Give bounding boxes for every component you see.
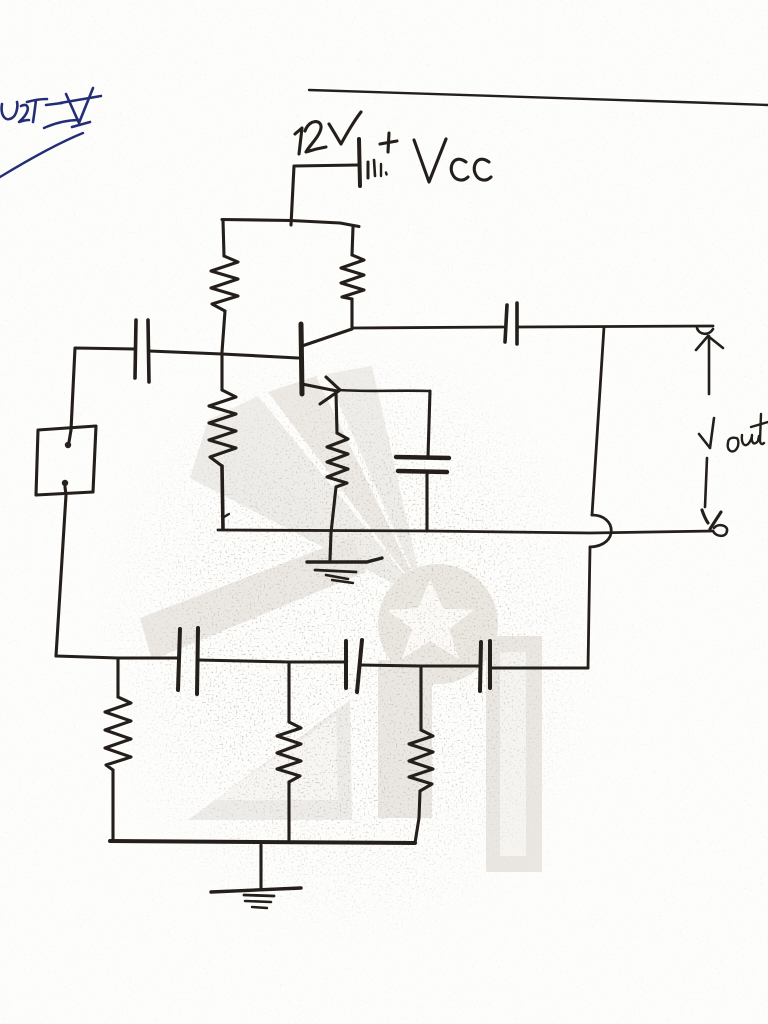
capacitor Cout left plate <box>505 305 507 342</box>
wire collector to output cap <box>352 327 503 328</box>
input source bottom terminal dot <box>62 480 68 486</box>
transistor Q1 base bar <box>301 324 302 394</box>
capacitor C3 left plate <box>480 642 481 691</box>
handwritten title letter I/2 <box>19 105 29 122</box>
transistor Q1 emitter arrowhead <box>320 377 340 404</box>
wire input box down to feedback rail <box>56 487 66 656</box>
watermark star <box>387 580 474 659</box>
label + Vcc <box>380 141 397 144</box>
wire emitter to CE <box>340 390 430 391</box>
resistor Rf3 zigzag <box>409 730 433 791</box>
ground (emitter) stem <box>330 533 331 560</box>
wire Vcc to rail <box>291 165 358 225</box>
resistor Rf2: top lead <box>287 663 290 722</box>
capacitor C3 right plate <box>488 641 492 688</box>
resistor R2 collector load: top lead <box>352 227 353 255</box>
handwritten title letter T <box>27 99 47 122</box>
resistor RE emitter: top lead <box>336 392 337 433</box>
ground (feedback) bars <box>211 888 301 892</box>
page crease line top <box>309 90 768 105</box>
resistor Rf2 bottom lead <box>287 782 290 840</box>
ground (feedback) stem <box>259 845 262 888</box>
battery B1 (Vcc supply) <box>359 139 360 186</box>
resistor RE zigzag <box>327 433 348 487</box>
watermark ray fan <box>190 420 425 600</box>
resistor R2 zigzag <box>341 255 364 299</box>
transistor Q1 emitter <box>302 384 337 391</box>
resistor R1 upper bias: top lead <box>223 220 224 256</box>
resistor Rf3 bottom lead <box>415 791 420 843</box>
input source top terminal dot <box>65 442 71 448</box>
resistor R3 zigzag <box>209 390 236 466</box>
input source box <box>36 426 96 495</box>
wire Cin left to input <box>71 348 135 430</box>
wire Cin right to base node <box>149 351 298 358</box>
resistor RE bottom lead <box>331 487 336 533</box>
resistor R3 bottom lead <box>222 466 223 529</box>
resistor Rf3: top lead <box>419 666 422 730</box>
capacitor CE top lead <box>428 391 430 457</box>
handwritten title letter U <box>2 102 18 119</box>
capacitor CE bottom lead <box>425 472 428 531</box>
watermark circle <box>378 564 498 684</box>
watermark triangle <box>188 700 352 820</box>
output terminal top hook <box>697 328 713 334</box>
wire hop over ground bus <box>590 515 611 547</box>
resistor Rf1: top lead <box>116 658 119 697</box>
capacitor C2 left plate <box>344 641 348 688</box>
wire Cout to output terminal <box>519 326 713 327</box>
ground rail <box>110 841 415 843</box>
capacitor Cout right plate <box>515 303 519 344</box>
capacitor C1 left plate <box>178 629 180 690</box>
resistor R3 lower bias: top lead <box>220 355 223 390</box>
transistor Q1 collector <box>302 329 352 346</box>
capacitor Cin plates <box>135 320 136 378</box>
output terminal bottom loop <box>713 525 727 536</box>
handwritten title numeral V <box>60 88 101 127</box>
feedback network wire <box>56 656 588 668</box>
watermark bar left <box>378 660 432 818</box>
resistor R1 bottom lead <box>222 311 225 352</box>
blue underline short <box>44 120 80 128</box>
ground bus wire y530 <box>218 530 713 533</box>
resistor R2 bottom lead <box>350 299 353 328</box>
stray tick near R3 <box>224 514 229 517</box>
capacitor C1 right plate <box>197 628 198 694</box>
capacitor CE bottom plate <box>398 471 447 472</box>
top supply rail <box>222 220 359 227</box>
wire output right vertical (bottom segment) <box>588 547 590 668</box>
label 12V <box>295 128 302 154</box>
watermark bar right <box>486 636 542 872</box>
resistor Rf2 zigzag <box>277 722 301 782</box>
resistor R1 zigzag <box>211 256 238 311</box>
Vout label <box>699 418 714 448</box>
watermark band <box>140 537 366 660</box>
resistor Rf1 bottom lead <box>111 770 114 840</box>
capacitor C2 right plate <box>357 640 362 692</box>
wire output right vertical (top segment) <box>592 327 604 515</box>
Vout dimension down arrow <box>705 458 707 507</box>
ground (emitter) bars <box>307 558 382 562</box>
resistor Rf1 zigzag <box>105 697 131 770</box>
blue underline swoosh <box>0 133 83 177</box>
scan speckle over watermark area <box>90 330 610 950</box>
handwritten title dash <box>46 103 62 105</box>
Vout dimension up arrow <box>708 336 711 394</box>
capacitor CE top plate <box>396 457 449 458</box>
